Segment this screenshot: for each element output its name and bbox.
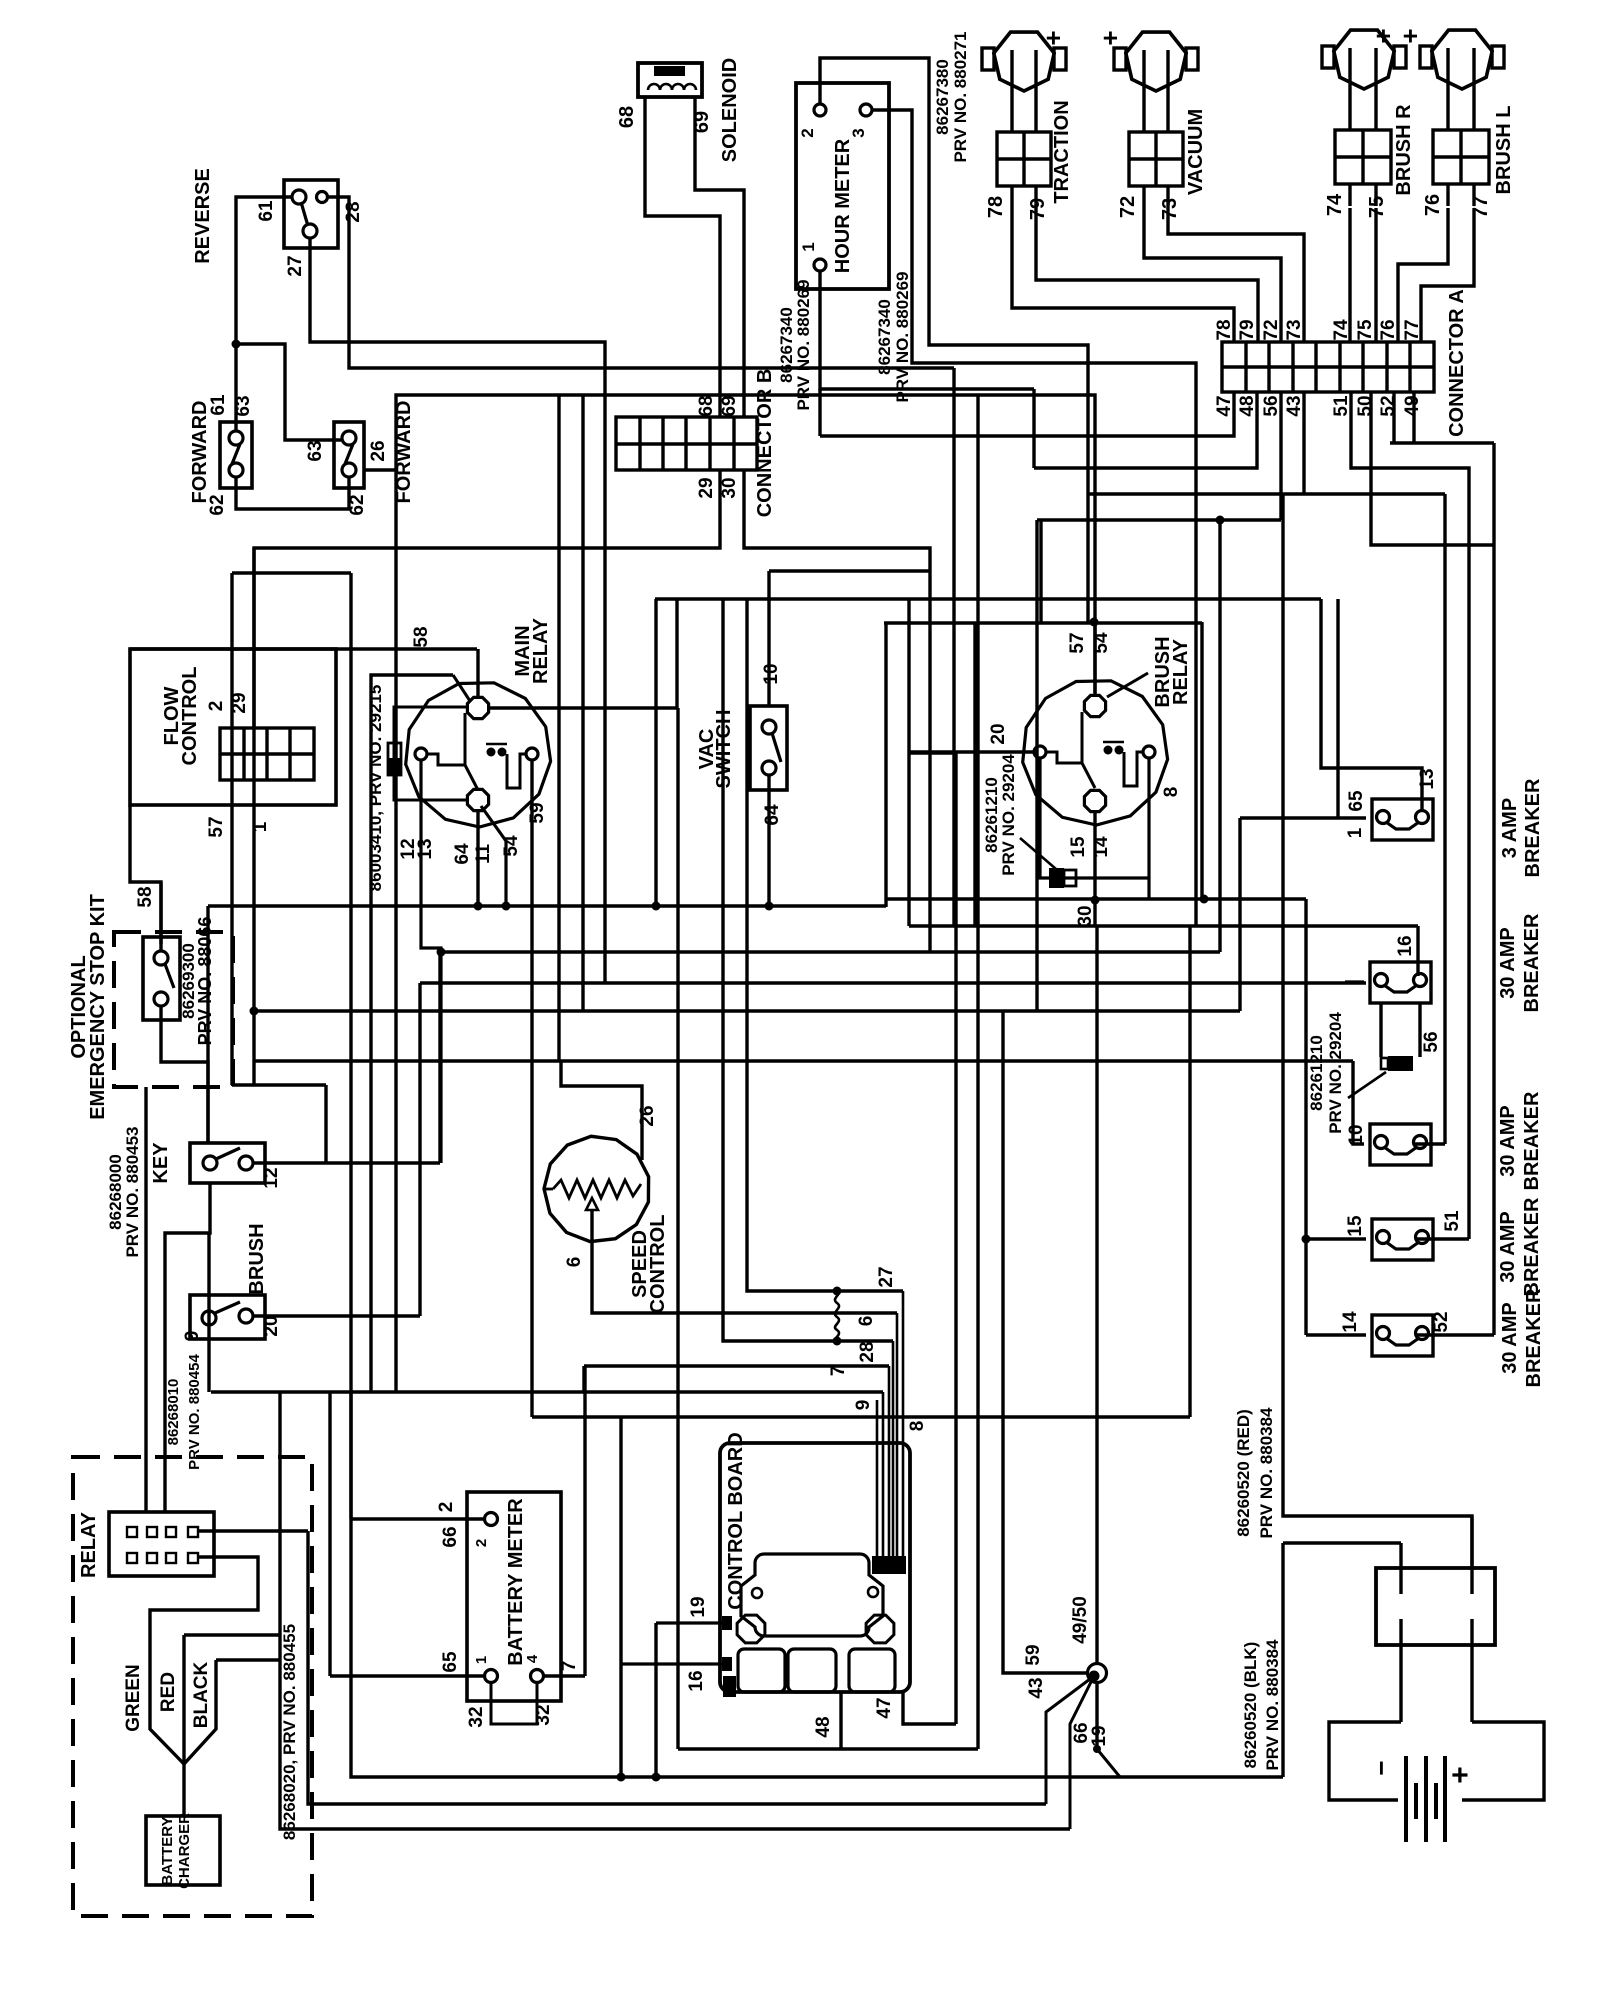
- svg-text:+: +: [1395, 28, 1425, 43]
- svg-text:27: 27: [285, 255, 306, 276]
- svg-text:8: 8: [1161, 787, 1182, 798]
- svg-text:9: 9: [853, 1400, 874, 1411]
- svg-text:79: 79: [1027, 198, 1049, 220]
- svg-text:TRACTION: TRACTION: [1051, 100, 1073, 203]
- svg-text:CONNECTOR A: CONNECTOR A: [1446, 289, 1468, 437]
- svg-text:BLACK: BLACK: [191, 1661, 212, 1728]
- svg-text:VACUUM: VACUUM: [1185, 109, 1207, 195]
- svg-text:−: −: [1366, 1760, 1396, 1775]
- svg-text:PRV NO. 880453: PRV NO. 880453: [123, 1126, 142, 1257]
- svg-text:8: 8: [907, 1421, 928, 1432]
- svg-text:73: 73: [1284, 319, 1305, 340]
- svg-text:29: 29: [696, 477, 717, 498]
- svg-text:48: 48: [1237, 395, 1258, 416]
- svg-text:86268010: 86268010: [165, 1379, 182, 1446]
- svg-text:SOLENOID: SOLENOID: [719, 58, 741, 162]
- svg-text:20: 20: [261, 1315, 282, 1336]
- svg-text:7: 7: [828, 1366, 849, 1377]
- svg-text:86267340: 86267340: [875, 299, 894, 375]
- svg-text:78: 78: [985, 196, 1007, 218]
- svg-text:27: 27: [876, 1266, 897, 1287]
- svg-text:10: 10: [761, 663, 782, 684]
- svg-text:47: 47: [874, 1697, 895, 1718]
- svg-text:CHARGER: CHARGER: [176, 1813, 193, 1889]
- svg-text:6: 6: [856, 1316, 877, 1327]
- svg-text:19: 19: [1089, 1725, 1110, 1746]
- svg-text:6: 6: [564, 1257, 585, 1268]
- svg-text:BATTERY METER: BATTERY METER: [505, 1498, 527, 1666]
- svg-text:PRV NO. 880384: PRV NO. 880384: [1257, 1407, 1276, 1539]
- svg-text:BREAKER: BREAKER: [1521, 1197, 1543, 1296]
- svg-text:13: 13: [415, 838, 436, 859]
- svg-text:61: 61: [208, 394, 229, 416]
- svg-text:30 AMP: 30 AMP: [1497, 1211, 1519, 1283]
- svg-text:30 AMP: 30 AMP: [1499, 1302, 1521, 1374]
- svg-text:26: 26: [637, 1105, 658, 1126]
- svg-text:74: 74: [1331, 319, 1352, 341]
- svg-text:20: 20: [988, 723, 1009, 744]
- svg-text:78: 78: [1214, 319, 1235, 340]
- svg-text:59: 59: [527, 802, 548, 823]
- svg-text:64: 64: [452, 843, 473, 865]
- svg-text:16: 16: [1395, 935, 1416, 956]
- svg-text:+: +: [1444, 1766, 1477, 1784]
- svg-text:32: 32: [466, 1706, 487, 1727]
- svg-text:57: 57: [206, 816, 227, 837]
- svg-text:76: 76: [1422, 194, 1444, 216]
- svg-text:72: 72: [1117, 196, 1139, 218]
- svg-text:RELAY: RELAY: [1170, 638, 1192, 705]
- svg-text:61: 61: [256, 200, 277, 222]
- svg-text:63: 63: [305, 440, 326, 461]
- svg-text:4: 4: [524, 1654, 541, 1663]
- svg-text:12: 12: [261, 1167, 282, 1188]
- svg-text:BRUSH: BRUSH: [246, 1223, 268, 1294]
- svg-text:KEY: KEY: [150, 1142, 172, 1184]
- svg-text:86261210: 86261210: [1307, 1035, 1326, 1111]
- svg-text:28: 28: [343, 201, 364, 222]
- svg-text:30 AMP: 30 AMP: [1497, 1105, 1519, 1177]
- svg-text:79: 79: [1237, 319, 1258, 340]
- svg-text:BRUSH L: BRUSH L: [1493, 106, 1515, 195]
- svg-text:BATTERY: BATTERY: [159, 1816, 176, 1885]
- svg-text:56: 56: [1261, 395, 1282, 416]
- svg-text:74: 74: [1324, 193, 1346, 216]
- svg-text:86003410, PRV NO. 29215: 86003410, PRV NO. 29215: [366, 685, 385, 892]
- svg-text:59: 59: [1023, 1644, 1044, 1665]
- svg-text:BREAKER: BREAKER: [1523, 1288, 1545, 1387]
- svg-text:65: 65: [440, 1651, 461, 1673]
- svg-text:PRV NO. 88066: PRV NO. 88066: [195, 917, 215, 1046]
- svg-text:86260520 (BLK): 86260520 (BLK): [1241, 1642, 1260, 1769]
- svg-text:28: 28: [857, 1341, 878, 1362]
- svg-text:CONTROL: CONTROL: [179, 667, 201, 766]
- svg-text:76: 76: [1378, 319, 1399, 340]
- svg-text:30: 30: [1075, 905, 1096, 926]
- svg-text:BREAKER: BREAKER: [1521, 1091, 1543, 1190]
- svg-text:30 AMP: 30 AMP: [1497, 927, 1519, 999]
- svg-text:86268020, PRV NO. 880455: 86268020, PRV NO. 880455: [280, 1624, 299, 1840]
- svg-text:REVERSE: REVERSE: [192, 168, 214, 264]
- svg-text:69: 69: [719, 395, 740, 416]
- svg-text:43: 43: [1284, 395, 1305, 416]
- svg-text:CONTROL: CONTROL: [647, 1215, 669, 1314]
- svg-text:72: 72: [1261, 319, 1282, 340]
- svg-text:19: 19: [688, 1596, 709, 1617]
- svg-text:RED: RED: [158, 1672, 179, 1712]
- svg-text:86260520 (RED): 86260520 (RED): [1234, 1409, 1253, 1537]
- svg-text:PRV NO. 880269: PRV NO. 880269: [794, 279, 813, 410]
- svg-text:PRV NO. 880269: PRV NO. 880269: [893, 271, 912, 402]
- svg-text:66: 66: [440, 1526, 461, 1547]
- svg-text:52: 52: [1378, 395, 1399, 416]
- svg-text:65: 65: [1346, 790, 1367, 812]
- svg-text:16: 16: [686, 1670, 707, 1691]
- svg-text:PRV NO. 29204: PRV NO. 29204: [1326, 1012, 1345, 1134]
- svg-text:1: 1: [473, 1656, 490, 1664]
- svg-text:51: 51: [1442, 1210, 1463, 1232]
- svg-text:68: 68: [696, 395, 717, 416]
- svg-text:FORWARD: FORWARD: [189, 401, 211, 504]
- svg-text:56: 56: [1421, 1031, 1442, 1052]
- svg-text:1: 1: [799, 242, 818, 251]
- svg-text:15: 15: [1345, 1215, 1366, 1237]
- svg-text:PRV NO. 880384: PRV NO. 880384: [1263, 1639, 1282, 1771]
- svg-text:PRV NO. 880454: PRV NO. 880454: [186, 1354, 203, 1470]
- svg-text:9: 9: [182, 1331, 203, 1342]
- svg-text:RELAY: RELAY: [78, 1511, 100, 1578]
- svg-text:+: +: [1038, 30, 1068, 45]
- svg-text:68: 68: [616, 106, 638, 128]
- svg-text:15: 15: [1068, 836, 1089, 858]
- svg-text:77: 77: [1402, 319, 1423, 340]
- svg-text:48: 48: [813, 1716, 834, 1737]
- svg-text:2: 2: [206, 701, 227, 712]
- svg-text:+: +: [1368, 28, 1398, 43]
- svg-text:14: 14: [1340, 1311, 1361, 1333]
- svg-text:26: 26: [368, 440, 389, 461]
- svg-text:50: 50: [1355, 395, 1376, 416]
- svg-text:75: 75: [1355, 319, 1376, 341]
- svg-text:57: 57: [1067, 632, 1088, 653]
- svg-text:64: 64: [762, 804, 783, 826]
- svg-text:13: 13: [1417, 768, 1438, 789]
- svg-text:CONNECTOR B: CONNECTOR B: [754, 369, 776, 518]
- svg-text:BREAKER: BREAKER: [1522, 778, 1544, 877]
- svg-text:2: 2: [473, 1539, 490, 1547]
- svg-text:2: 2: [436, 1502, 457, 1513]
- svg-text:BRUSH R: BRUSH R: [1393, 104, 1415, 196]
- svg-text:1: 1: [1345, 827, 1366, 838]
- svg-text:BREAKER: BREAKER: [1521, 913, 1543, 1012]
- svg-text:58: 58: [411, 626, 432, 647]
- svg-text:52: 52: [1431, 1311, 1452, 1332]
- svg-text:54: 54: [501, 835, 522, 857]
- svg-text:49/50: 49/50: [1070, 1596, 1091, 1644]
- svg-text:30: 30: [719, 477, 740, 498]
- svg-text:7: 7: [559, 1661, 580, 1672]
- svg-text:73: 73: [1159, 198, 1181, 220]
- svg-text:43: 43: [1026, 1677, 1047, 1698]
- svg-text:11: 11: [473, 844, 494, 865]
- svg-text:47: 47: [1214, 395, 1235, 416]
- svg-text:3: 3: [849, 128, 868, 137]
- svg-text:EMERGENCY STOP KIT: EMERGENCY STOP KIT: [87, 894, 109, 1120]
- svg-text:RELAY: RELAY: [530, 617, 552, 684]
- svg-text:3 AMP: 3 AMP: [1499, 798, 1521, 858]
- svg-text:PRV NO. 880271: PRV NO. 880271: [951, 31, 970, 162]
- svg-text:51: 51: [1331, 395, 1352, 417]
- svg-text:+: +: [1095, 30, 1125, 45]
- svg-text:58: 58: [135, 886, 156, 907]
- svg-text:HOUR METER: HOUR METER: [832, 138, 854, 273]
- svg-text:2: 2: [798, 128, 817, 137]
- svg-text:PRV NO. 29204: PRV NO. 29204: [999, 754, 1018, 876]
- svg-text:86267380: 86267380: [933, 59, 952, 135]
- svg-text:GREEN: GREEN: [123, 1664, 144, 1732]
